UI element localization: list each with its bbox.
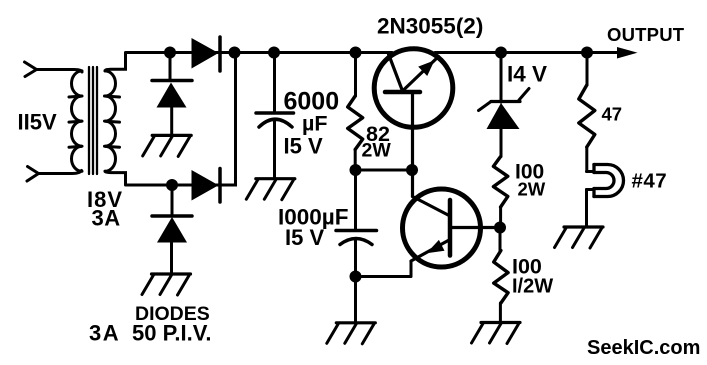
svg-text:2N3055(2): 2N3055(2): [377, 14, 483, 39]
svg-text:II5V: II5V: [18, 110, 57, 135]
svg-text:#47: #47: [632, 170, 668, 193]
svg-text:I5 V: I5 V: [284, 134, 323, 159]
svg-text:µF: µF: [302, 112, 328, 136]
svg-text:47: 47: [602, 104, 623, 125]
svg-text:3A: 3A: [92, 206, 121, 231]
svg-text:I5 V: I5 V: [285, 225, 324, 250]
svg-text:I/2W: I/2W: [512, 276, 553, 298]
svg-text:3A: 3A: [89, 321, 120, 346]
svg-text:50 P.I.V.: 50 P.I.V.: [132, 321, 212, 346]
svg-text:2W: 2W: [518, 179, 546, 200]
svg-text:2W: 2W: [362, 140, 392, 162]
svg-text:SeekIC.com: SeekIC.com: [587, 337, 700, 359]
svg-text:OUTPUT: OUTPUT: [607, 24, 685, 45]
svg-text:I4 V: I4 V: [507, 62, 547, 87]
